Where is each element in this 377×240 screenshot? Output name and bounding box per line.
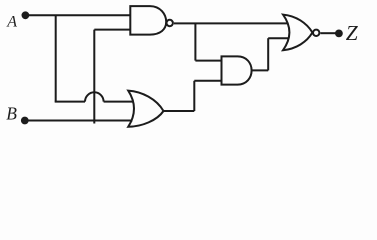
wire B branch vertical up to NAND input 2 <box>93 30 95 124</box>
wire A to NAND input 1 <box>27 14 131 16</box>
node Z terminal dot <box>335 30 343 38</box>
svg-text:A: A <box>6 14 17 31</box>
wire NAND output to NOR input 1 <box>174 22 288 24</box>
wire hop over B vertical <box>85 92 104 101</box>
node B terminal dot <box>21 117 29 125</box>
wire A branch vertical down <box>55 15 57 101</box>
wire OR output <box>164 110 195 112</box>
AND gate body <box>222 56 252 84</box>
svg-text:B: B <box>6 104 17 124</box>
wire NAND output branch vertical down <box>194 23 196 60</box>
NAND gate inversion bubble <box>167 20 173 26</box>
OR gate body <box>128 91 163 127</box>
wire AND output <box>252 69 269 71</box>
svg-text:Z: Z <box>346 21 359 45</box>
wire NOR output to Z <box>320 32 336 34</box>
wire B to OR input 2 <box>27 120 133 122</box>
NAND gate body <box>130 6 166 34</box>
wire OR output vertical up <box>193 81 195 111</box>
node A terminal dot <box>22 11 30 19</box>
wire AND output vertical up <box>267 38 269 70</box>
wire A branch horizontal to OR input 1 <box>104 101 134 103</box>
NOR gate inversion bubble <box>313 30 319 36</box>
wire B branch horizontal to NAND input 2 <box>94 29 130 31</box>
wire A branch horizontal left of hop <box>55 101 85 103</box>
wire NAND branch to AND input 1 <box>195 60 221 62</box>
wire AND output to NOR input 2 <box>268 37 289 39</box>
NOR gate body <box>283 15 312 51</box>
wire OR output to AND input 2 <box>194 80 221 82</box>
